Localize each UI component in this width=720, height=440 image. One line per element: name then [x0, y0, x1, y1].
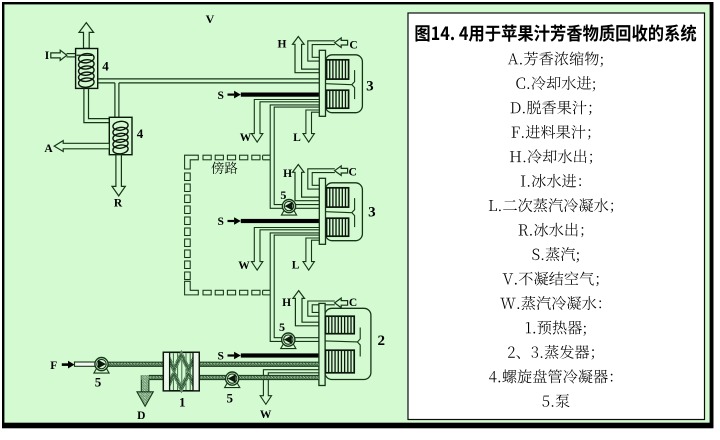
preheater right end plate	[193, 352, 199, 391]
preheater U1 (plate heat exchanger)	[163, 352, 199, 391]
legend line 5.泵	[542, 394, 569, 408]
spiral coil condenser U4b	[109, 117, 132, 154]
svg-text:C: C	[349, 297, 357, 309]
evaporator U3b (middle effect) lower tube bundle	[327, 218, 349, 236]
legend line F.进料果汁；	[512, 125, 591, 140]
wire: branch down from vapor pipe to condenser 4b	[114, 83, 116, 117]
svg-text:4: 4	[102, 59, 109, 74]
right frame border	[710, 2, 714, 428]
wire: suction pipe F to pump 5 (feed)	[75, 362, 96, 366]
svg-text:5: 5	[226, 390, 233, 405]
svg-text:S: S	[217, 90, 223, 102]
wire: hatched juice line pump to preheater	[108, 362, 164, 366]
wire: cooling water C inlet pipe	[308, 301, 335, 316]
evaporator U3b (middle effect) shell (rounded casing)	[325, 183, 362, 241]
svg-text:R: R	[114, 197, 123, 209]
hollow arrow I into condenser 4a	[67, 53, 76, 55]
svg-text:W: W	[240, 132, 252, 144]
svg-text:F: F	[50, 360, 57, 372]
wire: hatched juice line preheater to D corner	[149, 375, 164, 379]
svg-text:C: C	[349, 39, 357, 51]
legend line S.蒸汽;	[532, 247, 578, 262]
pump P5d (bottom evaporator feed pump)	[281, 333, 296, 349]
wire: thick steam line	[241, 219, 319, 223]
svg-text:L: L	[292, 259, 300, 271]
legend line I.冰水进：	[521, 174, 581, 188]
legend line D.脱香果汁；	[511, 101, 592, 116]
svg-text:I: I	[45, 50, 50, 62]
legend line H.冷却水出；	[510, 149, 592, 164]
evaporator U2 (first effect) upper tube bundle	[326, 316, 355, 334]
svg-text:2: 2	[378, 333, 386, 349]
wire: cooling water C inlet pipe	[308, 41, 335, 61]
evaporator U2 (first effect): H cooling-water-out arrow	[293, 291, 319, 326]
evaporator U2 (first effect) shell (rounded casing)	[325, 308, 371, 379]
hollow arrow C (cooling water in)	[335, 298, 348, 308]
legend line W.蒸汽冷凝水：	[500, 296, 601, 310]
svg-text:H: H	[278, 38, 287, 50]
wire: pipe from condenser 4a bottom to condenser 4b left	[84, 89, 109, 123]
vapor junction brace inside U3a (top effect)	[326, 84, 352, 85]
svg-text:4: 4	[137, 126, 144, 141]
hollow arrow L (secondary-vapor condensate) from evaporator 3 top	[303, 110, 319, 142]
bypass label 傍路	[211, 162, 237, 174]
evaporator U3b (middle effect) upper tube bundle	[327, 188, 349, 207]
svg-text:3: 3	[366, 79, 374, 95]
svg-text:D: D	[137, 410, 145, 422]
svg-text:H: H	[283, 168, 292, 180]
bypass dashed line (left run)	[185, 173, 191, 181]
wire: cooling water C inlet pipe	[308, 169, 335, 189]
legend line L.二次蒸汽冷凝水；	[489, 198, 613, 213]
evaporator U3b (middle effect) header plate	[319, 178, 325, 244]
solid arrow F	[62, 363, 68, 366]
wire: hatched juice line preheater to evaporator 2	[199, 362, 319, 366]
evaporator U3a (top effect) lower tube bundle	[327, 90, 349, 108]
wire: hatched juice line evaporator 2 to pump2	[239, 375, 319, 379]
wire: pump 5 (middle) discharge into evaporator 3 middle header	[289, 204, 319, 206]
svg-text:V: V	[206, 12, 215, 26]
vent hollow arrow (V) from condenser 4a top	[79, 23, 94, 49]
svg-text:A: A	[44, 143, 53, 155]
pump P5a (feed pump, arrow right)	[94, 358, 109, 374]
spiral coil condenser U4a	[76, 49, 98, 89]
wire: hatched juice line pump2 to preheater	[199, 375, 225, 379]
wire: concentrate drain from evaporator 3 middle down to pump 5 (bottom)	[270, 233, 319, 342]
vapor junction brace inside U3b (middle effect)	[326, 212, 352, 213]
svg-text:3: 3	[368, 204, 376, 220]
evaporator U3a (top effect) upper tube bundle	[327, 60, 349, 79]
hollow arrow W from evaporator 3 middle	[251, 228, 319, 271]
wire: thick steam line	[241, 353, 319, 357]
wire: vapor pipe from condenser 4a to evaporator 3 header	[98, 78, 319, 80]
bypass dashed line (top run)	[203, 155, 211, 160]
hollow arrow A out of condenser 4b	[54, 141, 109, 152]
svg-text:L: L	[293, 132, 301, 144]
svg-text:H: H	[282, 297, 291, 309]
evaporator U3a (top effect) shell (rounded casing)	[325, 55, 362, 113]
hollow arrow W from evaporator 2	[260, 370, 319, 405]
vapor junction brace inside U2 (first effect)	[325, 341, 357, 342]
hollow arrow D (dearomatized juice out), hatch-filled	[141, 375, 149, 392]
bypass dashed corner (top-left)	[185, 155, 199, 169]
pump P5c (middle evaporator feed pump)	[281, 200, 296, 216]
pump P5b (concentrate return pump, arrow left)	[225, 372, 240, 388]
wire: pump 5 (bottom) discharge into evaporator 2 header	[288, 337, 319, 339]
legend line C.冷却水进;	[516, 76, 595, 91]
legend line V.不凝结空气；	[503, 271, 599, 286]
evaporator U2 (first effect) lower tube bundle	[326, 350, 355, 373]
legend line 4.螺旋盘管冷凝器：	[489, 369, 612, 383]
hollow arrow R down from condenser 4b	[112, 155, 125, 196]
svg-text:1: 1	[179, 395, 186, 410]
wire: bypass connector to concentrate pipe (top)	[263, 155, 271, 160]
svg-text:C: C	[348, 167, 356, 179]
wire: concentrate drain from evaporator 3 top down to pump 5 (middle)	[270, 105, 319, 208]
preheater left end plate	[163, 352, 169, 391]
wire: bypass connector to concentrate pipe (bottom)	[263, 290, 271, 295]
legend line R.冰水出；	[519, 223, 584, 238]
thick bottom frame bar	[2, 423, 713, 429]
evaporator U2 (first effect) header plate	[319, 303, 325, 385]
legend line 2、3.蒸发器；	[508, 345, 594, 360]
svg-text:5: 5	[279, 320, 285, 334]
evaporator U3a (top effect) header plate	[319, 50, 325, 116]
legend title 图14.4	[416, 24, 697, 41]
svg-text:S: S	[217, 216, 223, 228]
legend line 1.预热器;	[526, 321, 586, 336]
legend line A.芳香浓缩物;	[508, 52, 603, 67]
bypass dashed line (bottom run)	[203, 290, 211, 295]
hollow arrow C (cooling water in)	[335, 166, 348, 176]
wire: thick steam line	[241, 93, 319, 97]
evaporator U3b (middle effect): H cooling-water-out arrow	[293, 165, 320, 201]
evaporator U3a (top effect): H cooling-water-out arrow	[293, 37, 320, 73]
svg-text:W: W	[260, 409, 272, 421]
hollow arrow C (cooling water in)	[335, 38, 348, 48]
svg-text:W: W	[238, 260, 250, 272]
hollow arrow W (steam condensate) from evaporator 3 top	[251, 100, 319, 143]
hollow arrow L from evaporator 3 middle	[303, 238, 319, 270]
legend box	[408, 13, 705, 420]
svg-text:5: 5	[95, 375, 102, 390]
bypass dashed corner (bottom-left)	[185, 281, 199, 295]
svg-text:S: S	[217, 351, 223, 363]
svg-text:5: 5	[280, 188, 286, 202]
